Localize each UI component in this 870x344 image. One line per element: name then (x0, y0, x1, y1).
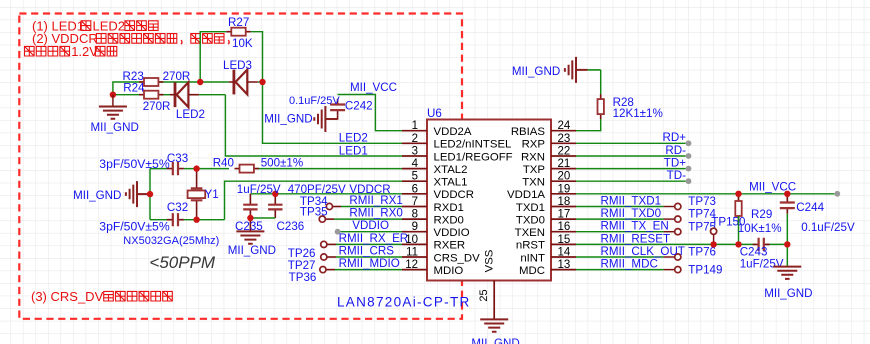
svg-text:VSS: VSS (484, 249, 496, 272)
svg-text:10K±1%: 10K±1% (738, 222, 782, 235)
no-ERC dot VCC rail (834, 191, 840, 197)
svg-text:1uF/25V: 1uF/25V (740, 258, 784, 271)
svg-text:270R: 270R (143, 100, 171, 113)
wire pin 22 RD- (576, 155, 686, 157)
svg-text:20: 20 (558, 171, 571, 183)
wire node A up to R27 (200, 32, 226, 82)
svg-text:TP73: TP73 (688, 195, 716, 208)
R29 top lead from VCC rail (738, 194, 740, 201)
svg-text:TXN: TXN (522, 177, 545, 189)
C244 leads / vertical rail (786, 194, 788, 201)
wire pin 12 RMII_MDIO (335, 269, 402, 271)
test point TP34 (326, 203, 332, 209)
junction C236 top (272, 191, 278, 197)
junction crystal top (193, 165, 199, 171)
svg-text:VDD2A: VDD2A (434, 126, 472, 138)
svg-text:10K: 10K (232, 37, 253, 50)
svg-text:VDDCR: VDDCR (434, 189, 475, 201)
svg-text:RMII_RX0: RMII_RX0 (349, 207, 402, 220)
wire C33 row (pin4 net) (150, 168, 167, 170)
svg-text:(3) CRS_DV: (3) CRS_DV (31, 289, 104, 304)
svg-text:RMII_TXD0: RMII_TXD0 (601, 207, 662, 220)
test point TP74 (675, 216, 681, 222)
svg-text:RMII_MDC: RMII_MDC (601, 258, 658, 271)
wire C32 row to corner (150, 219, 167, 221)
svg-text:RMII_RX1: RMII_RX1 (349, 194, 402, 207)
resistor R28 (598, 94, 604, 119)
LED D2 (LED2) (170, 82, 199, 107)
svg-text:4: 4 (412, 158, 419, 170)
wire RMII_TXD1 (576, 206, 664, 208)
wire pin 7 RMII_RX1 (341, 206, 402, 208)
wire node A to LED3 (200, 81, 229, 83)
wire RMII_TXD0 (576, 218, 664, 220)
wire R27 right down to node B, pin 2 (251, 32, 402, 144)
pin 8 stub (402, 218, 427, 220)
svg-text:6: 6 (412, 183, 418, 195)
pin 23 stub right (551, 142, 576, 144)
svg-text:MII_GND: MII_GND (512, 65, 560, 78)
svg-text:1: 1 (412, 120, 418, 132)
svg-text:nINT: nINT (520, 252, 545, 264)
svg-text:R27: R27 (228, 16, 249, 29)
svg-text:RD-: RD- (665, 144, 686, 157)
pin 20 stub right (551, 180, 576, 182)
svg-text:13: 13 (558, 259, 571, 271)
resistor R27 (226, 28, 250, 36)
svg-text:XTAL1: XTAL1 (434, 177, 468, 189)
svg-text:C235: C235 (235, 220, 263, 233)
svg-text:VDDIO: VDDIO (352, 219, 389, 232)
svg-text:18: 18 (558, 196, 571, 208)
pin 15 stub right (551, 243, 576, 245)
svg-text:22: 22 (558, 146, 571, 158)
svg-text:5: 5 (412, 171, 418, 183)
wire pin 20 TD- (576, 180, 686, 182)
svg-text:TD-: TD- (667, 169, 686, 182)
svg-text:12K1±1%: 12K1±1% (613, 107, 663, 120)
annotation note 3 bottom (31, 289, 172, 304)
svg-text:MDC: MDC (519, 265, 545, 277)
wire pin 19 to MII_VCC rail (576, 193, 834, 195)
svg-text:RXD1: RXD1 (434, 202, 464, 214)
svg-text:3pF/50V±5%: 3pF/50V±5% (99, 157, 170, 171)
pin 9 stub (402, 231, 427, 233)
pin 2 stub (402, 142, 427, 144)
svg-text:19: 19 (558, 183, 571, 195)
ground bottom right (773, 267, 801, 279)
LED D3 (LED3) (229, 70, 258, 95)
wire RMII_CLK_OUT (576, 256, 664, 258)
pin 12 stub (402, 269, 427, 271)
junction C244 bottom (784, 241, 790, 247)
svg-text:LED2/nINTSEL: LED2/nINTSEL (434, 139, 512, 151)
junction R29 bottom (735, 241, 741, 247)
wire LED2 net down to pin 3 (225, 95, 402, 156)
svg-text:TP26: TP26 (288, 247, 316, 260)
svg-text:RXN: RXN (521, 151, 545, 163)
pin 19 stub right (551, 193, 576, 195)
svg-text:VDDIO: VDDIO (434, 227, 470, 239)
svg-text:Y1: Y1 (205, 188, 219, 201)
IC U6 LAN8720Ai body (427, 120, 551, 281)
pin 25 VSS stub (493, 281, 495, 319)
svg-text:RD+: RD+ (662, 131, 686, 144)
svg-text:RMII_MDIO: RMII_MDIO (339, 257, 400, 270)
wire pin 6 (VDDCR) (250, 193, 402, 195)
svg-text:MII_GND: MII_GND (91, 121, 139, 134)
ground under pin 25 (480, 319, 508, 331)
svg-text:<50PPM: <50PPM (149, 253, 216, 272)
test point TP150 circle (711, 228, 717, 234)
wire MII_VCC to pin 1 (338, 95, 402, 131)
svg-text:LAN8720Ai-CP-TR: LAN8720Ai-CP-TR (337, 295, 471, 310)
svg-text:TP149: TP149 (688, 263, 722, 276)
junction crystal bottom (193, 217, 199, 223)
svg-text:3: 3 (412, 146, 418, 158)
svg-text:C33: C33 (167, 152, 188, 165)
wire R40 right to pin 4 (256, 168, 403, 170)
svg-text:1uF/25V: 1uF/25V (237, 183, 281, 196)
svg-text:NX5032GA(25Mhz): NX5032GA(25Mhz) (123, 235, 219, 247)
no-ERC dot TD+ (686, 166, 692, 172)
test point TP149 (675, 267, 681, 273)
capacitor C243 (753, 238, 770, 251)
wire pin 15 RMII_RESET long (576, 243, 756, 245)
svg-text:TXD1: TXD1 (516, 202, 545, 214)
svg-text:RMII_RX_ER: RMII_RX_ER (339, 232, 409, 245)
svg-text:15: 15 (558, 234, 571, 246)
svg-text:R24: R24 (123, 82, 145, 95)
svg-text:23: 23 (558, 133, 571, 145)
svg-text:U6: U6 (427, 107, 442, 120)
pin 10 stub (402, 243, 427, 245)
capacitor C32 (167, 213, 184, 226)
svg-text:MII_VCC: MII_VCC (350, 81, 397, 94)
svg-text:MII_GND: MII_GND (471, 337, 519, 344)
svg-text:25: 25 (478, 289, 490, 301)
svg-text:RXD0: RXD0 (434, 214, 464, 226)
no-ERC dot RD+ (686, 140, 692, 146)
wire pin 21 TD+ (576, 168, 686, 170)
pin 21 stub right (551, 168, 576, 170)
ground MII_GND left-top (112, 95, 114, 107)
svg-text:MII_GND: MII_GND (764, 287, 812, 300)
svg-text:MDIO: MDIO (434, 265, 464, 277)
svg-text:LED1/REGOFF: LED1/REGOFF (434, 151, 513, 163)
wire corner up to pin 5 (225, 181, 403, 220)
junction node B (259, 79, 265, 85)
ground near C33 (126, 181, 149, 207)
test point TP36 circle (320, 267, 326, 273)
svg-text:RMII_TX_EN: RMII_TX_EN (601, 220, 669, 233)
no-ERC dot VDDIO (335, 229, 341, 235)
resistor R24 (139, 91, 163, 99)
wire R23 left to ground junction (113, 82, 144, 95)
capacitor C244 (780, 197, 795, 214)
svg-text:500±1%: 500±1% (261, 157, 303, 170)
ground top right (565, 57, 588, 83)
svg-text:RBIAS: RBIAS (511, 126, 546, 138)
svg-text:RMII_TXD1: RMII_TXD1 (601, 195, 662, 208)
svg-text:16: 16 (558, 221, 571, 233)
wire RMII_TX_EN (576, 231, 664, 233)
svg-text:9: 9 (412, 221, 418, 233)
svg-text:2: 2 (412, 133, 418, 145)
svg-text:270R: 270R (163, 70, 191, 83)
svg-text:RXP: RXP (522, 139, 545, 151)
ground top right stem (588, 69, 601, 71)
svg-text:TXD0: TXD0 (516, 214, 545, 226)
C242 bottom lead to ground (325, 116, 337, 119)
wire pin 9 VDDIO (341, 231, 403, 233)
wire pin 11 RMII_CRS (336, 256, 402, 258)
svg-text:21: 21 (558, 158, 571, 170)
wire R24 left (113, 94, 144, 96)
test point TP26 circle (321, 241, 327, 247)
svg-text:C243: C243 (740, 246, 768, 259)
svg-text:TP27: TP27 (288, 259, 316, 272)
junction node A (197, 79, 203, 85)
svg-text:TP35: TP35 (300, 206, 328, 219)
wire LED2 anode right (199, 94, 225, 96)
svg-text:RMII_RESET: RMII_RESET (601, 232, 671, 245)
R29 bottom lead (738, 216, 740, 244)
pin 18 stub right (551, 206, 576, 208)
test point TP35 (319, 216, 325, 222)
capacitor C235 (243, 194, 257, 232)
test point TP75 (675, 229, 681, 235)
wire ground to R28 to pin 24 (576, 70, 601, 131)
svg-text:TXP: TXP (523, 164, 545, 176)
svg-text:MII_GND: MII_GND (228, 244, 276, 257)
capacitor C236 (268, 194, 282, 218)
pin 16 stub right (551, 231, 576, 233)
pin 4 stub (402, 168, 427, 170)
svg-text:nRST: nRST (516, 240, 545, 252)
ground near C242 (314, 106, 337, 132)
junction ground-xtal net (147, 191, 153, 197)
wire LED3 to node B (258, 81, 263, 83)
capacitor C242 (330, 99, 345, 116)
svg-text:3pF/50V±5%: 3pF/50V±5% (99, 220, 170, 234)
svg-text:10: 10 (405, 234, 418, 246)
svg-text:RMII_CLK_OUT: RMII_CLK_OUT (601, 245, 685, 258)
test point TP76 (675, 254, 681, 260)
svg-text:7: 7 (412, 196, 418, 208)
red dashed annotation box (19, 14, 462, 319)
junction C244 top (784, 191, 790, 197)
resistor R29 (735, 196, 741, 221)
pin 14 stub right (551, 256, 576, 258)
svg-text:LED3: LED3 (223, 59, 252, 72)
svg-text:CRS_DV: CRS_DV (434, 252, 481, 264)
resistor R40 (235, 165, 259, 173)
wire RMII_MDC (576, 269, 664, 271)
svg-text:TD+: TD+ (664, 156, 686, 169)
svg-text:8: 8 (412, 209, 418, 221)
svg-text:LED2: LED2 (176, 108, 205, 121)
svg-text:24: 24 (558, 120, 571, 132)
svg-text:TP36: TP36 (289, 271, 317, 284)
junction R23/R24/ground (110, 92, 116, 98)
svg-text:C244: C244 (796, 201, 824, 214)
no-ERC dot RD- (686, 153, 692, 159)
test point TP150 lead (713, 234, 715, 244)
svg-text:1.2V: 1.2V (71, 44, 98, 59)
C236 bottom wire to C235 lead (250, 217, 275, 219)
svg-text:TXEN: TXEN (515, 227, 545, 239)
pin 1 stub (402, 130, 427, 132)
capacitor C33 (167, 162, 184, 175)
svg-text:MII_GND: MII_GND (264, 112, 312, 125)
svg-text:RMII_CRS: RMII_CRS (339, 245, 395, 258)
no-ERC dot TD- (686, 178, 692, 184)
ground under C235 (236, 231, 264, 243)
junction TP150 (710, 241, 716, 247)
svg-text:C32: C32 (167, 201, 188, 214)
svg-text:LED1: LED1 (339, 144, 368, 157)
svg-text:RXER: RXER (434, 240, 466, 252)
pin 7 stub (402, 206, 427, 208)
crystal Y1 (188, 169, 206, 220)
svg-text:11: 11 (406, 247, 418, 259)
annotation note 1 (32, 18, 158, 33)
pin 17 stub right (551, 218, 576, 220)
pin 22 stub right (551, 155, 576, 157)
test point TP27 circle (321, 254, 327, 260)
resistor R23 (139, 78, 163, 86)
ground bars left-top (99, 107, 127, 119)
pin 24 stub right (551, 130, 576, 132)
svg-text:R40: R40 (213, 157, 234, 170)
svg-text:12: 12 (405, 259, 418, 271)
pin 6 stub (402, 193, 427, 195)
wire pin 10 RMII_RX_ER (336, 243, 402, 245)
pin 13 stub right (551, 269, 576, 271)
pin 11 stub (402, 256, 427, 258)
wire R24 to LED2 (159, 94, 171, 96)
svg-text:C236: C236 (277, 220, 305, 233)
svg-text:0.1uF/25V: 0.1uF/25V (289, 95, 340, 107)
wire R23 right to node A (159, 81, 201, 83)
annotation note 2 (32, 31, 229, 46)
svg-text:MII_GND: MII_GND (73, 189, 121, 202)
junction C235/C236 bottom (247, 215, 253, 221)
pin 5 stub (402, 180, 427, 182)
annotation note 3 (24, 44, 116, 59)
svg-text:0.1uF/25V: 0.1uF/25V (801, 221, 855, 234)
junction R29 top (735, 191, 741, 197)
svg-text:C242: C242 (345, 99, 373, 112)
svg-text:VDD1A: VDD1A (507, 189, 545, 201)
svg-text:R29: R29 (751, 208, 772, 221)
test point TP73 (675, 203, 681, 209)
svg-text:17: 17 (558, 209, 571, 221)
ground stem near C33 (137, 193, 150, 195)
wire pin 23 RD+ (576, 142, 686, 144)
svg-text:XTAL2: XTAL2 (434, 164, 468, 176)
wire left vertical C33-C32 (149, 169, 151, 220)
svg-text:14: 14 (558, 247, 571, 259)
svg-text:LED2: LED2 (339, 132, 368, 145)
wire pin 8 RMII_RX0 (334, 218, 402, 220)
svg-text:TP76: TP76 (688, 246, 716, 259)
pin 3 stub (402, 155, 427, 157)
